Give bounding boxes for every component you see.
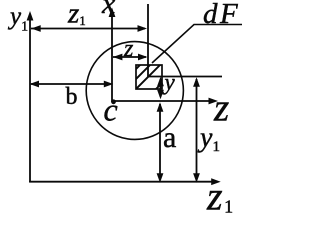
svg-text:z: z (213, 87, 229, 130)
dimension y1 line (196, 79, 198, 180)
node c centroid dot (111, 99, 116, 104)
arrow a dim up (157, 102, 164, 112)
arrow a dim down (157, 173, 164, 183)
svg-text:z: z (123, 36, 134, 62)
arrow y1 dim down (193, 173, 200, 183)
arrow z dim left (113, 54, 123, 61)
arrow b dim right (104, 81, 114, 88)
wire z axis (113, 100, 212, 102)
arrow z dim right (138, 54, 148, 61)
arrow y dim down (157, 90, 164, 100)
svg-text:b: b (66, 84, 78, 110)
wire x axis (111, 10, 113, 102)
arrow y1 dim up (193, 77, 200, 87)
svg-text:x: x (101, 0, 116, 20)
wire element vertical extension (147, 4, 149, 77)
arrow z1 axis right (211, 178, 221, 185)
arrow z axis right (209, 98, 219, 105)
dimension y line (160, 79, 162, 97)
dimension z1 line (31, 28, 145, 30)
svg-text:a: a (163, 121, 176, 154)
leader line for dF (152, 25, 242, 64)
dimension z line (113, 56, 146, 58)
arrowheads (27, 8, 221, 186)
element dF square with hatching (130, 53, 192, 115)
circle section outline (86, 42, 183, 140)
arrow x axis up (109, 8, 116, 18)
wire element horizontal extension (148, 76, 222, 78)
dimension a line (159, 104, 161, 180)
arrow y1 axis up (27, 11, 34, 21)
arrow z1 dim right (138, 25, 148, 32)
svg-text:y: y (163, 70, 176, 95)
svg-text:c: c (104, 92, 118, 128)
arrow z1 dim left (31, 25, 41, 32)
svg-text:dF: dF (203, 0, 240, 30)
wire y1 axis (29, 14, 31, 182)
dimension b line (31, 83, 110, 85)
arrow y dim up (157, 77, 164, 87)
arrow b dim left (30, 81, 40, 88)
wire z1 axis (29, 181, 214, 183)
